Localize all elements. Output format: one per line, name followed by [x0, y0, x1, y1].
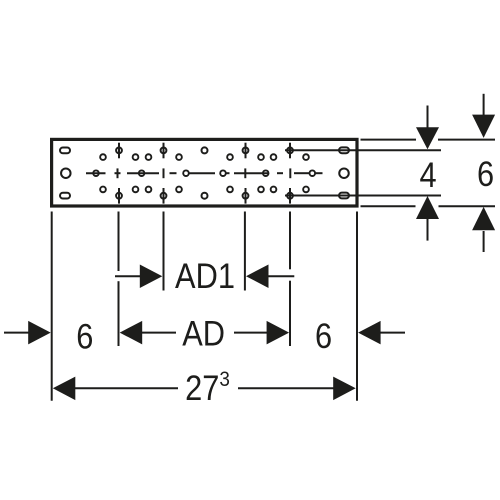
dimension 4: down arrow stem — [427, 106, 429, 129]
svg-text:AD1: AD1 — [175, 256, 235, 295]
arrowhead AD left inner (points left) — [120, 321, 143, 345]
small holes upper row y=157.1 — [100, 154, 309, 160]
svg-text:6: 6 — [76, 317, 93, 356]
slot hole top-left — [60, 148, 70, 154]
plate outline — [52, 139, 357, 206]
crossed hole columns: top row y=150.4 — [116, 143, 293, 159]
crossed hole columns: bottom row y=195.7 — [116, 188, 293, 204]
extension line plate top edge — [361, 139, 417, 141]
center plain holes on crossed rows — [202, 147, 208, 153]
dimension 6 right: down arrow stem — [483, 94, 485, 116]
arrowhead 4 down — [416, 127, 439, 149]
middle centerline dash-dot y=173.2 — [86, 168, 323, 178]
circle hole left end — [61, 168, 71, 178]
arrowhead 27-3 left (points left) — [53, 377, 76, 401]
dimension 6 right: up arrow stem — [483, 231, 485, 252]
small holes lower row y=189.4 — [100, 187, 309, 193]
arrowhead AD1 left (points right) — [140, 265, 163, 289]
arrowhead 27-3 right (points right) — [333, 377, 356, 401]
svg-text:6: 6 — [477, 154, 494, 193]
circle hole right end — [339, 168, 349, 178]
dimension 4: up arrow stem — [427, 218, 429, 241]
svg-text:AD: AD — [182, 314, 225, 353]
leader line top hole row (y=150.2) — [285, 149, 441, 151]
arrowhead 4 up — [416, 196, 439, 219]
dimension AD1 stems — [115, 275, 141, 277]
svg-text:4: 4 — [419, 155, 436, 194]
middle row small holes — [93, 170, 315, 176]
slot hole bottom-right — [339, 193, 349, 199]
slot hole bottom-left — [60, 193, 70, 199]
arrowhead AD far-right (points left) — [358, 321, 381, 345]
arrowhead AD1 right (points left) — [246, 265, 269, 289]
svg-text:273: 273 — [185, 368, 230, 407]
slot hole top-right — [339, 147, 349, 153]
dimension AD stems — [4, 332, 29, 334]
dimension 27-3 line — [75, 387, 179, 389]
svg-text:6: 6 — [315, 316, 332, 355]
arrowhead AD right inner (points right) — [267, 321, 290, 345]
arrowhead 6 up — [472, 207, 495, 230]
extension line plate bottom edge — [361, 205, 416, 207]
arrowhead 6 down — [472, 115, 495, 138]
extension lines below plate — [51, 212, 53, 401]
leader line bottom hole row (y=195.5) — [285, 195, 441, 197]
arrowhead AD far-left (points right) — [28, 321, 51, 345]
